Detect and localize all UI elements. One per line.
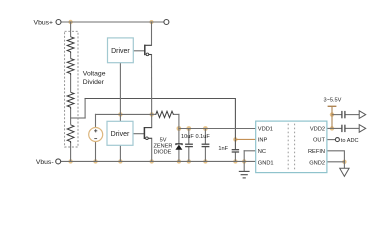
svg-text:Driver: Driver: [111, 48, 130, 55]
svg-text:GND1: GND1: [258, 160, 274, 166]
svg-text:3~5.5V: 3~5.5V: [323, 97, 341, 103]
svg-text:DIODE: DIODE: [154, 150, 172, 156]
svg-text:REFIN: REFIN: [308, 149, 325, 155]
svg-text:Divider: Divider: [83, 79, 105, 86]
svg-text:1nF: 1nF: [218, 146, 228, 152]
svg-text:to ADC: to ADC: [341, 138, 359, 144]
svg-text:GND2: GND2: [309, 160, 325, 166]
svg-text:NC: NC: [258, 149, 266, 155]
svg-text:10uF: 10uF: [181, 134, 194, 140]
svg-text:Voltage: Voltage: [83, 70, 106, 77]
svg-text:OUT: OUT: [313, 138, 326, 144]
svg-text:Vbus-: Vbus-: [36, 159, 54, 166]
svg-text:Vbus+: Vbus+: [34, 20, 53, 27]
svg-text:INP: INP: [258, 138, 268, 144]
svg-text:Driver: Driver: [111, 131, 130, 138]
svg-text:VDD1: VDD1: [258, 126, 273, 132]
svg-text:VDD2: VDD2: [310, 126, 325, 132]
svg-text:0.1uF: 0.1uF: [195, 134, 210, 140]
